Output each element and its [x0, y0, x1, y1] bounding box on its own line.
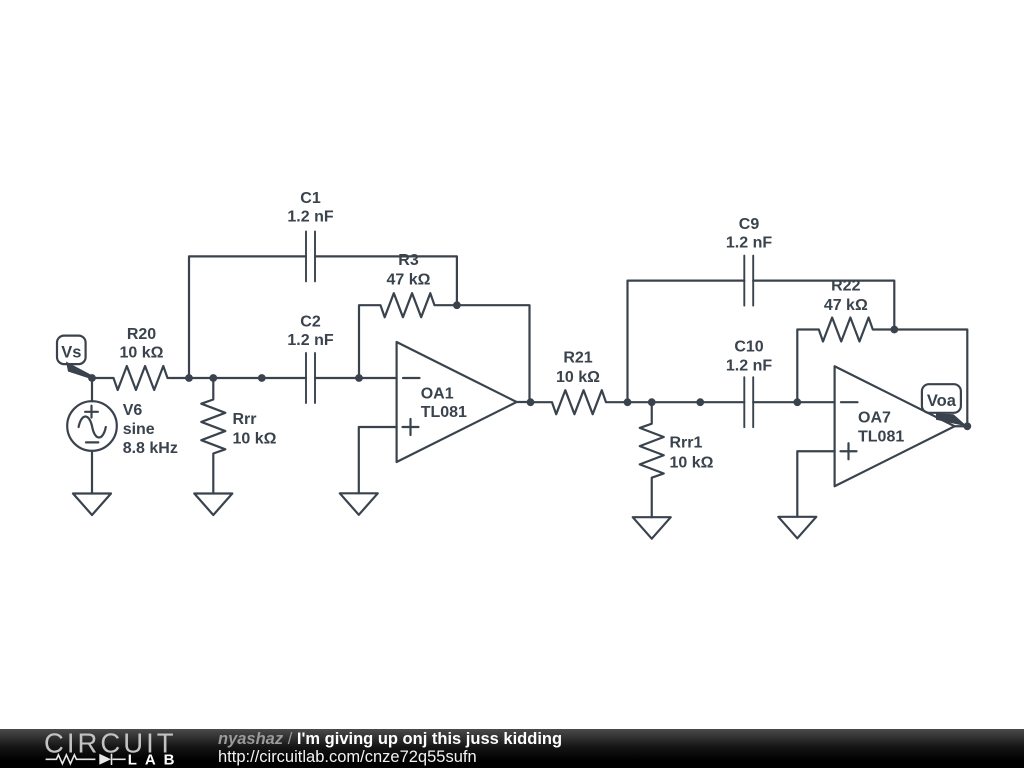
svg-text:LAB: LAB [128, 751, 183, 768]
svg-text:47 kΩ: 47 kΩ [824, 297, 868, 314]
svg-text:10 kΩ: 10 kΩ [670, 455, 714, 472]
svg-text:1.2 nF: 1.2 nF [287, 332, 333, 349]
svg-text:8.8 kHz: 8.8 kHz [123, 440, 178, 457]
svg-text:TL081: TL081 [858, 428, 904, 445]
svg-text:C2: C2 [300, 314, 321, 331]
svg-text:10 kΩ: 10 kΩ [556, 369, 600, 386]
svg-text:1.2 nF: 1.2 nF [726, 358, 772, 375]
svg-text:10 kΩ: 10 kΩ [120, 345, 164, 362]
svg-text:10 kΩ: 10 kΩ [233, 431, 277, 448]
svg-text:1.2 nF: 1.2 nF [287, 209, 333, 226]
svg-text:R20: R20 [127, 326, 156, 343]
svg-text:OA1: OA1 [421, 386, 454, 403]
svg-text:R21: R21 [563, 350, 592, 367]
svg-text:Rrr1: Rrr1 [670, 435, 703, 452]
svg-text:Rrr: Rrr [233, 411, 257, 428]
svg-text:TL081: TL081 [421, 404, 467, 421]
svg-text:sine: sine [123, 421, 155, 438]
svg-text:Vs: Vs [61, 344, 81, 362]
svg-text:V6: V6 [123, 402, 143, 419]
svg-text:C9: C9 [739, 216, 760, 233]
svg-text:R22: R22 [831, 278, 860, 295]
svg-text:C1: C1 [300, 190, 321, 207]
svg-text:C10: C10 [734, 339, 763, 356]
svg-text:1.2 nF: 1.2 nF [726, 235, 772, 252]
svg-text:OA7: OA7 [858, 410, 891, 427]
svg-text:47 kΩ: 47 kΩ [387, 272, 431, 289]
svg-text:Voa: Voa [927, 392, 957, 410]
svg-text:R3: R3 [398, 252, 419, 269]
